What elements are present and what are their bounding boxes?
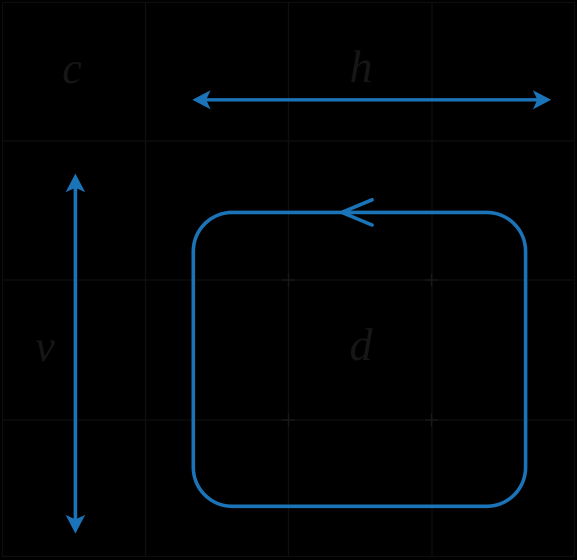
vertical arrow bottom head (66, 515, 86, 534)
svg-text:h: h (350, 41, 373, 92)
svg-text:v: v (35, 322, 55, 371)
horizontal arrow right head (533, 90, 551, 109)
horizontal arrow left head (192, 90, 210, 109)
vertical double arrow (v) shaft (74, 186, 78, 521)
rounded rectangle path d (193, 212, 525, 506)
horizontal double arrow (h) shaft (204, 98, 540, 101)
vertical arrow top head (66, 174, 86, 193)
svg-text:c: c (62, 44, 82, 93)
faint grid horizontal lines (3, 141, 575, 420)
faint grid crossing ticks (282, 274, 438, 427)
direction arrowhead on top edge (open chevron pointing left) (342, 200, 372, 225)
svg-text:d: d (350, 319, 374, 370)
faint grid vertical lines (146, 3, 433, 557)
